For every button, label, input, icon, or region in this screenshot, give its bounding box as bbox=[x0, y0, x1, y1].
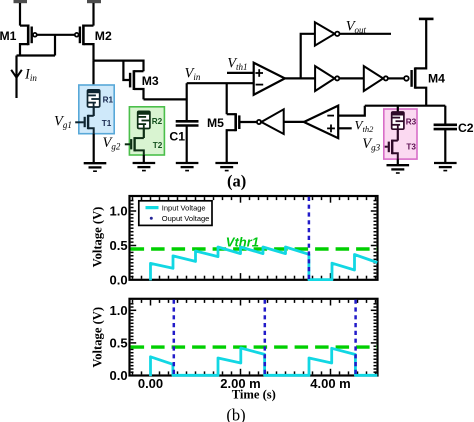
svg-text:M1: M1 bbox=[0, 29, 17, 43]
svg-text:0.5: 0.5 bbox=[110, 335, 128, 350]
transistor T3 bbox=[385, 140, 398, 160]
plot 1 green threshold dashed line bbox=[131, 247, 377, 250]
wire M5 drain to Vin line bbox=[226, 83, 228, 114]
plot 1 output spike bbox=[308, 197, 311, 279]
plot 2 frame bbox=[130, 299, 378, 376]
node B wire (M4 drain / R3 / C2) bbox=[365, 105, 446, 107]
x minor ticks top/bottom bbox=[132, 197, 134, 200]
plot 1 legend box bbox=[139, 201, 212, 226]
VDD bar above M1 bbox=[14, 0, 28, 3]
wire diode connection M1 bbox=[54, 35, 56, 56]
wire M2 drain down to R1 bbox=[92, 61, 94, 91]
wire node B to R3 bbox=[397, 106, 399, 113]
svg-text:M5: M5 bbox=[207, 116, 224, 130]
wire U5 to M4 gate bbox=[388, 77, 404, 79]
inverter U5 bbox=[364, 66, 388, 91]
wire gate line M1-M2 bbox=[37, 34, 75, 36]
wire U4 to U5 bbox=[339, 77, 363, 79]
plot 1 input waveform bbox=[151, 247, 378, 280]
node Vin column bbox=[186, 83, 188, 120]
svg-text:R2: R2 bbox=[152, 117, 163, 126]
capacitor C2 bbox=[444, 106, 446, 124]
memristor cell box 3 bbox=[384, 109, 417, 159]
wire U2 minus input from node B bbox=[338, 106, 365, 116]
wire M1 drain to gate net bbox=[17, 54, 56, 56]
wire M1 source to VDD bbox=[19, 3, 21, 26]
wire U2 plus input stub bbox=[338, 127, 352, 129]
plot 2 ticks bbox=[131, 300, 377, 375]
wire M3 source to Vin node bbox=[144, 98, 187, 100]
transistor M5 bbox=[227, 113, 257, 162]
ground below C1 bbox=[176, 163, 199, 171]
svg-text:Time (s): Time (s) bbox=[232, 388, 276, 402]
svg-text:0.00: 0.00 bbox=[138, 376, 163, 391]
svg-text:R1: R1 bbox=[103, 95, 114, 104]
wire inverter U3 input bbox=[284, 121, 304, 123]
memristor cell box 1 bbox=[79, 85, 114, 134]
memristor R2 bbox=[137, 111, 150, 129]
wire input current branch bbox=[15, 56, 17, 99]
svg-text:R3: R3 bbox=[406, 118, 417, 127]
inverter U3 driving M5 gate bbox=[257, 109, 284, 134]
memristor R1 bbox=[87, 90, 100, 108]
current arrow I_in bbox=[11, 70, 22, 78]
svg-text:0.0: 0.0 bbox=[110, 272, 128, 287]
svg-text:M2: M2 bbox=[95, 29, 112, 43]
VDD bar above M4 bbox=[419, 18, 434, 21]
transistor M3 (NMOS diode-connected) bbox=[123, 61, 143, 100]
transistor M1 (PMOS, diode-connected) bbox=[20, 25, 37, 56]
transistor M4 (PMOS) bbox=[404, 20, 426, 106]
svg-text:Input Voltage: Input Voltage bbox=[162, 203, 206, 212]
svg-text:4.00 m: 4.00 m bbox=[310, 376, 350, 391]
wire M2 source to VDD bbox=[92, 3, 94, 26]
capacitor C1 bbox=[176, 121, 199, 125]
wire Vin to comparator minus bbox=[187, 82, 254, 84]
legend input sample bbox=[146, 206, 159, 209]
svg-text:Voltage (V): Voltage (V) bbox=[91, 207, 105, 268]
ground below C2 bbox=[434, 163, 457, 171]
svg-text:M4: M4 bbox=[428, 71, 445, 85]
plot 1 ticks bbox=[131, 197, 377, 279]
wire C1 to ground bbox=[186, 126, 188, 163]
wire U1 output bbox=[285, 77, 315, 79]
inverter U4 bbox=[315, 66, 339, 91]
plot 1 y tick labels bbox=[110, 203, 128, 287]
wire T3 source to ground bbox=[397, 159, 399, 164]
wire R1 to T1 bbox=[93, 107, 95, 116]
ground below R3 cell bbox=[387, 165, 410, 173]
svg-text:T1: T1 bbox=[102, 119, 112, 128]
wire M2 drain node to M3 bbox=[94, 61, 144, 72]
plot 2 input waveform bbox=[151, 348, 378, 376]
transistor M2 (PMOS mirror) bbox=[75, 25, 94, 61]
svg-text:(a): (a) bbox=[227, 172, 246, 191]
ground below R2 cell bbox=[133, 163, 156, 171]
transistor T2 bbox=[125, 137, 144, 155]
ground below M5 bbox=[215, 163, 238, 171]
inverter U6 (Vout) bbox=[315, 22, 340, 45]
memristor R3 bbox=[391, 112, 404, 130]
wire branch to Vout inverter bbox=[301, 34, 315, 79]
svg-text:C1: C1 bbox=[169, 130, 185, 144]
svg-text:Voltage (V): Voltage (V) bbox=[91, 307, 105, 368]
plot 2 x tick labels bbox=[138, 376, 351, 391]
svg-text:1.0: 1.0 bbox=[110, 303, 128, 318]
svg-text:Ouput Voltage: Ouput Voltage bbox=[162, 214, 210, 223]
wire R2 to T2 bbox=[143, 128, 145, 138]
memristor cell box 2 bbox=[129, 107, 164, 155]
svg-text:1.0: 1.0 bbox=[110, 203, 128, 218]
plot 2 green threshold dashed line bbox=[131, 345, 377, 348]
svg-text:T2: T2 bbox=[153, 141, 163, 150]
svg-text:M3: M3 bbox=[142, 74, 159, 88]
ground below R1 cell bbox=[84, 163, 107, 171]
wire T1 source to ground bbox=[93, 134, 95, 163]
svg-text:0.0: 0.0 bbox=[110, 368, 128, 383]
wire C2 to ground bbox=[444, 129, 446, 162]
svg-text:(b): (b) bbox=[226, 406, 245, 422]
plot 2 output spikes bbox=[174, 300, 356, 375]
transistor T1 bbox=[75, 115, 94, 134]
svg-text:C2: C2 bbox=[458, 121, 474, 135]
comparator U2 (lower, points left) bbox=[304, 106, 338, 139]
plot 2 y tick labels bbox=[110, 303, 128, 383]
legend output sample bbox=[150, 217, 153, 220]
svg-text:T3: T3 bbox=[406, 142, 416, 151]
wire R3 to T3 bbox=[397, 129, 399, 141]
svg-text:0.5: 0.5 bbox=[110, 238, 128, 253]
plot 1 frame bbox=[130, 196, 378, 280]
comparator U1 (upper, points right) bbox=[254, 63, 285, 95]
VDD bar above M2 bbox=[87, 0, 101, 3]
wire Vout bbox=[340, 33, 391, 35]
wire Vth1 input stub bbox=[227, 72, 254, 74]
wire T2 source to ground bbox=[143, 155, 145, 162]
